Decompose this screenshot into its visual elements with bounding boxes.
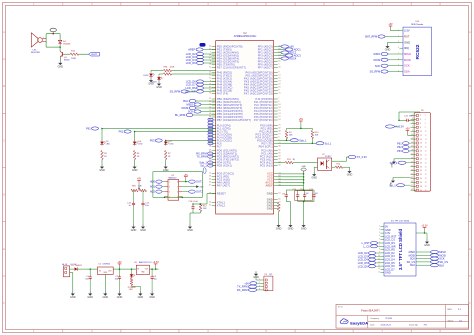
- svg-text:AMS1117-3.3: AMS1117-3.3: [139, 261, 152, 264]
- svg-text:19: 19: [411, 150, 413, 152]
- svg-text:1: 1: [169, 181, 170, 183]
- net flag opamp out2: [189, 190, 196, 193]
- svg-text:GND: GND: [311, 177, 317, 180]
- wire aref row: [278, 185, 304, 187]
- svg-text:MAX232: MAX232: [169, 176, 178, 179]
- svg-text:2: 2: [425, 115, 426, 117]
- svg-text:7: 7: [177, 186, 178, 188]
- svg-text:GND: GND: [200, 187, 205, 189]
- net flag MOSI lcd right: [431, 254, 439, 257]
- wire buzzer right top: [59, 34, 61, 40]
- svg-text:5: 5: [412, 122, 413, 124]
- svg-text:MISO: MISO: [187, 103, 194, 107]
- optocoupler U7 PC817: [318, 158, 332, 170]
- svg-text:72: 72: [209, 104, 211, 106]
- svg-text:38: 38: [425, 186, 427, 188]
- ground bus 1: [276, 223, 282, 231]
- svg-text:28: 28: [425, 166, 427, 168]
- svg-text:60: 60: [278, 152, 280, 154]
- svg-text:LED2: LED2: [143, 75, 149, 77]
- svg-text:5: 5: [278, 63, 279, 65]
- svg-text:11: 11: [411, 134, 413, 136]
- svg-text:JTSCM: JTSCM: [385, 318, 392, 320]
- wire P62 to MCU: [135, 131, 216, 133]
- wire J1 pin1 to diode: [70, 268, 75, 270]
- wire P63 to MCU: [166, 140, 216, 142]
- LED D8 power indicator: [131, 269, 133, 273]
- LED D6: [134, 132, 136, 141]
- svg-text:56: 56: [278, 66, 280, 68]
- resistor R15 vertical: [277, 203, 280, 212]
- svg-text:Scl_1: Scl_1: [325, 141, 332, 145]
- svg-text:24: 24: [425, 158, 427, 160]
- net flag rotated above opamp loop: [203, 168, 206, 174]
- svg-text:75: 75: [278, 92, 280, 94]
- ground opto right: [347, 169, 353, 177]
- svg-text:25: 25: [411, 161, 413, 163]
- ground LED D3: [156, 81, 162, 89]
- ground header mid: [392, 159, 396, 164]
- svg-text:7: 7: [278, 98, 279, 100]
- svg-text:RST: RST: [404, 35, 410, 39]
- svg-text:10u: 10u: [85, 278, 88, 280]
- svg-text:65: 65: [278, 60, 280, 62]
- connector P5 body: [264, 276, 273, 291]
- svg-text:OUT: OUT: [145, 269, 149, 271]
- svg-text:4: 4: [420, 119, 421, 121]
- svg-text:18: 18: [420, 147, 422, 149]
- ground bt: [253, 271, 259, 279]
- LED D3: [158, 76, 160, 77]
- svg-text:100R: 100R: [170, 66, 175, 68]
- svg-text:40: 40: [425, 190, 427, 192]
- svg-text:GND: GND: [301, 166, 306, 168]
- resistor R9 10K: [286, 128, 288, 130]
- svg-text:GND: GND: [385, 49, 391, 52]
- svg-text:34: 34: [420, 178, 422, 180]
- svg-text:11: 11: [209, 172, 211, 174]
- wire base to resistor: [65, 53, 70, 55]
- svg-text:GND: GND: [117, 296, 123, 299]
- capacitor C14: [133, 201, 135, 203]
- svg-text:SS_RFM: SS_RFM: [170, 90, 181, 94]
- svg-text:Scl_1: Scl_1: [389, 183, 396, 187]
- svg-text:C: C: [469, 139, 471, 142]
- svg-text:Scl_1: Scl_1: [200, 164, 207, 168]
- svg-text:ATMEGA2560-16AU: ATMEGA2560-16AU: [234, 35, 257, 38]
- svg-text:104: 104: [315, 193, 318, 195]
- svg-text:26: 26: [420, 162, 422, 164]
- svg-text:PE7 (CLKO/ICP3/INT7): PE7 (CLKO/ICP3/INT7): [217, 65, 246, 69]
- svg-text:L_CS: L_CS: [363, 244, 370, 248]
- wire U1 gnd pin: [104, 274, 106, 291]
- op-amp U5 body: [168, 180, 179, 201]
- svg-text:72: 72: [278, 116, 280, 118]
- svg-text:LM7805: LM7805: [103, 264, 111, 266]
- svg-text:1: 1: [379, 225, 380, 227]
- svg-text:BAT_RFM: BAT_RFM: [365, 35, 377, 39]
- svg-text:4: 4: [379, 235, 380, 237]
- svg-text:73: 73: [209, 139, 211, 141]
- svg-text:SCK: SCK: [375, 64, 381, 68]
- svg-text:55: 55: [278, 149, 280, 151]
- diode D1 1N4007: [75, 267, 78, 270]
- ground chain 2: [132, 164, 138, 172]
- net flag BLK lcd right: [431, 264, 439, 267]
- svg-text:15: 15: [378, 272, 380, 274]
- svg-text:GND: GND: [149, 296, 155, 299]
- wire i2c rail: [287, 127, 313, 129]
- wire emitter to ground: [59, 57, 61, 60]
- svg-text:18: 18: [425, 147, 427, 149]
- MCU U2 ATMEGA2560-16AU body: [216, 41, 274, 214]
- svg-text:39: 39: [278, 158, 280, 160]
- svg-text:13: 13: [378, 265, 380, 267]
- svg-text:MISO: MISO: [404, 52, 411, 56]
- svg-text:D: D: [3, 194, 5, 197]
- svg-text:ADC4: ADC4: [289, 57, 296, 61]
- svg-text:104: 104: [306, 193, 309, 195]
- svg-text:8: 8: [420, 127, 421, 129]
- svg-text:3: 3: [379, 232, 380, 234]
- wire R7 to ground: [165, 160, 167, 165]
- svg-text:70: 70: [278, 110, 280, 112]
- wire LED row 2: [159, 73, 163, 75]
- svg-text:10: 10: [425, 131, 427, 133]
- wire diode to collector: [59, 45, 61, 51]
- svg-text:47: 47: [209, 57, 211, 59]
- svg-text:90: 90: [209, 164, 211, 166]
- svg-text:D1 1N4007: D1 1N4007: [72, 265, 83, 267]
- svg-text:AREF: AREF: [266, 183, 274, 187]
- svg-text:64: 64: [209, 145, 211, 147]
- svg-text:8: 8: [210, 60, 211, 62]
- svg-text:55: 55: [278, 77, 280, 79]
- svg-text:14: 14: [209, 124, 211, 126]
- svg-text:41: 41: [209, 152, 211, 154]
- svg-text:88: 88: [278, 145, 280, 147]
- svg-text:10: 10: [420, 131, 422, 133]
- svg-text:12: 12: [209, 66, 211, 68]
- svg-text:12: 12: [425, 135, 427, 137]
- svg-text:5: 5: [379, 239, 380, 241]
- svg-text:48: 48: [278, 130, 280, 132]
- LED D2: [150, 73, 152, 74]
- svg-text:36: 36: [425, 182, 427, 184]
- svg-text:Date:: Date:: [370, 323, 375, 326]
- svg-text:81: 81: [278, 86, 280, 88]
- svg-text:PF7 (ADC7): PF7 (ADC7): [258, 65, 273, 69]
- wire U1 out rail: [113, 268, 136, 270]
- net flag Scl_1: [316, 142, 324, 145]
- capacitor C12 104: [313, 193, 315, 195]
- svg-text:30: 30: [420, 170, 422, 172]
- svg-text:74: 74: [209, 127, 211, 129]
- svg-text:GND: GND: [424, 244, 430, 247]
- svg-text:31: 31: [411, 173, 413, 175]
- svg-text:TX_3.3V: TX_3.3V: [357, 155, 367, 159]
- svg-text:15: 15: [411, 142, 413, 144]
- svg-text:16: 16: [420, 143, 422, 145]
- resistor R5 1K: [101, 146, 103, 151]
- svg-text:10K: 10K: [203, 208, 207, 210]
- svg-text:71: 71: [209, 77, 211, 79]
- svg-text:LCD_D5: LCD_D5: [186, 61, 197, 65]
- svg-text:2: 2: [379, 229, 380, 231]
- connector U10 RFID RC522 body: [403, 27, 431, 76]
- svg-text:GND: GND: [140, 229, 146, 232]
- regulator U1 LM7805: [98, 267, 114, 274]
- pin header P6 body: [414, 113, 431, 192]
- svg-text:2019-09-22: 2019-09-22: [381, 324, 392, 326]
- svg-text:PA7 (AD7): PA7 (AD7): [217, 183, 230, 187]
- svg-text:32: 32: [425, 174, 427, 176]
- svg-text:C: C: [3, 139, 5, 142]
- svg-text:8: 8: [177, 181, 178, 183]
- svg-text:10u: 10u: [145, 205, 148, 207]
- wire SDA: [278, 139, 291, 141]
- net flag ADC1 right of MCU: [286, 48, 294, 51]
- ground power 2: [87, 291, 93, 299]
- svg-text:GND: GND: [87, 296, 93, 299]
- svg-text:8: 8: [278, 89, 279, 91]
- svg-text:54: 54: [209, 71, 211, 73]
- svg-text:PD4 (ICP1): PD4 (ICP1): [259, 144, 273, 148]
- svg-text:GND: GND: [70, 296, 76, 299]
- svg-text:PB7 (OC0A/OC1C/PCINT7): PB7 (OC0A/OC1C/PCINT7): [217, 118, 251, 122]
- svg-text:11: 11: [378, 258, 380, 260]
- svg-text:66: 66: [278, 198, 280, 200]
- ground buzzer: [58, 60, 64, 68]
- svg-text:LED: LED: [106, 144, 111, 146]
- capacitor C2 104: [119, 269, 121, 275]
- svg-text:16: 16: [209, 113, 211, 115]
- pin end ovals column PL group: [208, 118, 213, 121]
- svg-text:BLK: BLK: [439, 263, 444, 267]
- ground LED D2: [148, 78, 154, 86]
- svg-text:BLK: BLK: [410, 264, 415, 267]
- wire opamp loop: [153, 172, 202, 198]
- ground power 4: [117, 291, 123, 299]
- svg-text:MOSI: MOSI: [182, 106, 189, 110]
- svg-text:7: 7: [210, 51, 211, 53]
- net flag TX_3.3V: [348, 155, 356, 158]
- diode D4 1N4448: [58, 40, 61, 43]
- svg-text:LED: LED: [170, 144, 175, 146]
- svg-text:73: 73: [278, 80, 280, 82]
- wire buzzer loop left: [45, 34, 47, 47]
- svg-text:PC5 (A13): PC5 (A13): [260, 163, 273, 167]
- svg-text:P61: P61: [397, 141, 402, 145]
- svg-text:PH7 (T4): PH7 (T4): [217, 91, 228, 95]
- wire reset rc bottom: [192, 210, 194, 213]
- svg-text:38: 38: [420, 186, 422, 188]
- svg-text:10K: 10K: [138, 186, 142, 188]
- net flag opamp out1: [189, 180, 196, 183]
- svg-text:Sda_1: Sda_1: [390, 161, 398, 165]
- net port 5V (solid blue) top-left of MCU: [200, 43, 206, 47]
- svg-text:78: 78: [278, 184, 280, 186]
- resistor R6 1K: [134, 146, 136, 151]
- svg-text:29: 29: [278, 83, 280, 85]
- svg-text:GND: GND: [103, 296, 109, 299]
- wire U3 gnd pin: [142, 274, 144, 278]
- connector U9 TFT LCD shield body: [384, 223, 416, 276]
- wire P61 to MCU: [102, 128, 216, 130]
- svg-text:GND: GND: [276, 228, 282, 231]
- net flag SCK lcd right: [431, 257, 439, 260]
- ground power 6: [149, 291, 155, 299]
- svg-text:31: 31: [209, 74, 211, 76]
- svg-text:75: 75: [278, 124, 280, 126]
- svg-text:PD5 (XCK1): PD5 (XCK1): [217, 163, 232, 167]
- svg-text:LED: LED: [129, 289, 134, 291]
- svg-text:54: 54: [209, 201, 211, 203]
- svg-text:P62: P62: [119, 130, 124, 134]
- svg-text:1N4448: 1N4448: [63, 44, 71, 46]
- svg-text:GND: GND: [132, 169, 138, 172]
- svg-text:94: 94: [209, 181, 211, 183]
- svg-text:GND: GND: [148, 83, 154, 86]
- resistor network RN1 100R: [164, 69, 172, 72]
- svg-text:32: 32: [278, 164, 280, 166]
- svg-text:22: 22: [420, 155, 422, 157]
- LED D7: [165, 140, 167, 142]
- ground chain 3: [163, 164, 169, 172]
- connector P5 pins: [260, 279, 264, 281]
- svg-text:10: 10: [378, 255, 380, 257]
- svg-text:75: 75: [209, 155, 211, 157]
- svg-text:GND: GND: [99, 169, 105, 172]
- wire opto collector to flag: [332, 157, 348, 161]
- wire MCU to R11: [278, 162, 285, 164]
- svg-text:D: D: [469, 194, 471, 197]
- svg-text:Fassi BAJATI: Fassi BAJATI: [361, 308, 380, 312]
- svg-text:82: 82: [278, 127, 280, 129]
- svg-text:OUT: OUT: [108, 271, 112, 273]
- svg-text:97: 97: [209, 204, 211, 206]
- svg-text:34: 34: [425, 178, 427, 180]
- wire U3 out: [150, 268, 159, 270]
- ground header low: [391, 178, 395, 183]
- svg-text:47: 47: [209, 158, 211, 160]
- svg-text:24: 24: [420, 158, 422, 160]
- svg-text:RESET: RESET: [217, 191, 226, 195]
- svg-text:92: 92: [209, 136, 211, 138]
- wire R6 to ground: [134, 160, 136, 165]
- ground reset rc: [187, 224, 193, 232]
- gnd flag above vcc bus: [301, 168, 306, 171]
- svg-text:SS_RFM: SS_RFM: [370, 70, 381, 74]
- resistor R12 10K: [199, 204, 202, 212]
- svg-text:BLK: BLK: [183, 99, 188, 103]
- svg-text:27: 27: [411, 165, 413, 167]
- svg-text:PJ7 (PCINT16): PJ7 (PCINT16): [254, 118, 273, 122]
- svg-text:PK7 (ADC15/PCINT23): PK7 (ADC15/PCINT23): [244, 91, 273, 95]
- ground power 5: [138, 291, 144, 299]
- ground bus 3: [301, 223, 307, 231]
- svg-text:LED: LED: [138, 144, 143, 146]
- svg-text:9: 9: [278, 136, 279, 138]
- wire resistor to BUZZ flag: [79, 53, 89, 55]
- svg-text:13: 13: [209, 133, 211, 135]
- wire opto emitter to R14: [332, 166, 335, 168]
- svg-text:9: 9: [379, 252, 380, 254]
- svg-text:P62: P62: [397, 145, 402, 149]
- svg-text:36: 36: [420, 182, 422, 184]
- svg-text:REV: REV: [448, 309, 453, 311]
- wire R11 to optocoupler: [293, 162, 317, 164]
- svg-text:2: 2: [420, 115, 421, 117]
- svg-text:GND: GND: [138, 296, 144, 299]
- svg-text:P61: P61: [86, 127, 91, 131]
- wire reset rc top: [193, 203, 207, 205]
- capacitor C9 104: [285, 193, 287, 195]
- gnd flag above buzzer: [50, 28, 56, 32]
- resistor R13 100R: [70, 53, 79, 56]
- svg-text:RC522: RC522: [415, 44, 421, 59]
- ground lcd right: [424, 239, 430, 247]
- svg-text:32: 32: [420, 174, 422, 176]
- wire RN1 to MCU: [172, 70, 216, 72]
- net flag header top: [386, 125, 395, 128]
- wire R5 to ground: [101, 160, 103, 165]
- svg-text:28: 28: [420, 166, 422, 168]
- capacitor bank box: [295, 191, 313, 201]
- svg-text:P63: P63: [397, 149, 402, 153]
- svg-text:GND: GND: [156, 86, 162, 89]
- svg-text:20: 20: [425, 151, 427, 153]
- svg-text:SCK: SCK: [404, 64, 410, 68]
- net flag ADC4 right of MCU: [281, 57, 289, 60]
- svg-text:GND: GND: [404, 40, 410, 44]
- svg-text:Drawn By:: Drawn By:: [409, 324, 419, 326]
- wire header top loop: [399, 112, 405, 120]
- svg-text:Sda_1: Sda_1: [299, 138, 307, 142]
- svg-text:37: 37: [209, 184, 211, 186]
- connector J1 DC input: [64, 266, 70, 277]
- svg-text:3: 3: [412, 118, 413, 120]
- svg-text:S8050: S8050: [64, 60, 71, 62]
- svg-text:6: 6: [177, 191, 178, 193]
- svg-text:22: 22: [425, 155, 427, 157]
- resistor R7 1K: [165, 146, 167, 151]
- capacitor C11 104: [304, 193, 306, 195]
- svg-text:PL7: PL7: [217, 144, 222, 148]
- wire SCL: [278, 142, 316, 144]
- svg-text:75: 75: [209, 89, 211, 91]
- net flag MISO lcd right: [431, 250, 439, 253]
- ground trimmer cap C15: [140, 224, 146, 232]
- svg-text:Sheet: Sheet: [448, 319, 454, 322]
- resistor R10 10K: [311, 128, 313, 130]
- svg-text:24: 24: [278, 119, 280, 121]
- resistor R14 10K: [335, 166, 343, 169]
- svg-text:AL IN: AL IN: [62, 263, 67, 266]
- capacitor C10 104: [297, 193, 299, 195]
- svg-text:14: 14: [425, 139, 427, 141]
- svg-text:MOSI: MOSI: [374, 58, 381, 62]
- svg-text:GND: GND: [385, 272, 391, 275]
- svg-text:40: 40: [209, 116, 211, 118]
- svg-text:GND: GND: [187, 229, 193, 232]
- svg-text:17: 17: [411, 146, 413, 148]
- svg-text:C16 0.1uF: C16 0.1uF: [189, 201, 199, 203]
- svg-text:GND: GND: [288, 228, 294, 231]
- svg-text:PC817: PC817: [325, 156, 332, 158]
- svg-text:18: 18: [278, 104, 280, 106]
- svg-text:GND: GND: [347, 174, 353, 177]
